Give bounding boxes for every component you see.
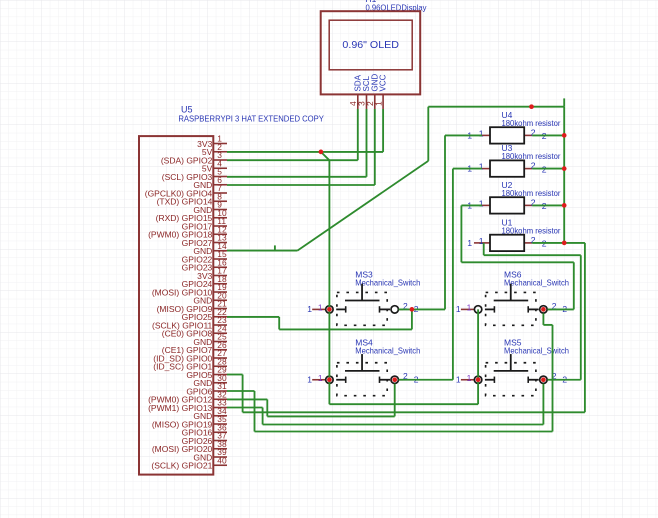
switch MS6 actuator bar (494, 300, 529, 302)
switch MS4 pin 1 terminal circle (326, 376, 333, 383)
U5 pin 33 stub (213, 407, 227, 409)
svg-text:1: 1 (467, 238, 472, 248)
wire pin29 horizontal (227, 374, 243, 376)
wire U1 pin2 riser down (584, 243, 586, 412)
U5 pin 21 stub (213, 308, 227, 310)
svg-text:1: 1 (373, 101, 383, 106)
svg-text:Mechanical_Switch: Mechanical_Switch (504, 346, 569, 356)
wire pin14 diagonal (297, 161, 428, 251)
IC U5 body (139, 136, 213, 475)
wire U2 pin1 horizontal (461, 204, 482, 206)
svg-text:(SCLK) GPIO21: (SCLK) GPIO21 (151, 461, 212, 471)
wire MS4 pin2 drop (394, 384, 396, 417)
switch MS3 pin 2 stub (399, 308, 404, 310)
wire diagonal riser (427, 107, 429, 161)
junction MS3 pin2 net (410, 307, 415, 312)
wire to MS6 pin2 (548, 308, 574, 310)
junction top rail wire (529, 104, 534, 109)
U5 pin 14 stub (213, 250, 227, 252)
U5 pin 32 stub (213, 398, 227, 400)
wire MS6 pin1 to MS5 pin1 and down (477, 309, 479, 404)
switch MS4 actuator bar (345, 370, 380, 372)
junction 5V wire (319, 150, 324, 155)
wire pin3 SDA horizontal (227, 159, 358, 161)
wire MS3 junction horizontal to chip (279, 328, 412, 330)
wire U2 pin1 riser down (460, 205, 462, 262)
wire U2 pin2 to rail (532, 204, 564, 206)
wire U4 pin1 horizontal (445, 134, 482, 136)
switch MS5 actuator bar (494, 370, 529, 372)
U5 pin 15 stub (213, 258, 227, 260)
wire resistor common rail stub above (563, 98, 565, 106)
switch MS5 pin 2 terminal circle (540, 376, 547, 383)
switch MS3 left contact arm (336, 308, 346, 310)
wire pin2 5V to OLED VCC (227, 151, 383, 153)
wire pin31 riser (254, 391, 256, 432)
U5 pin 29 stub (213, 374, 227, 376)
resistor U1 pin 1 stub (474, 242, 490, 244)
switch MS4 dashed body (337, 363, 387, 396)
wire MS6 pin2 drop (542, 313, 544, 325)
switch MS3 right arm tick (379, 306, 381, 312)
U5 pin 40 stub (213, 464, 227, 466)
switch MS5 dashed body (486, 363, 536, 396)
U5 pin 35 stub (213, 423, 227, 425)
svg-text:40: 40 (217, 455, 227, 465)
wire pin22 riser (278, 317, 280, 330)
switch MS5 left arm tick (493, 377, 495, 383)
svg-text:SDA: SDA (353, 74, 362, 91)
U5 pin 23 stub (213, 324, 227, 326)
U5 pin 9 stub (213, 209, 227, 211)
switch MS6 pin 2 stub (547, 308, 552, 310)
wire pin32 riser (266, 399, 268, 416)
svg-text:1: 1 (467, 373, 472, 383)
switch MS4 pin 2 stub (399, 379, 404, 381)
resistor U4 pin 2 stub (524, 134, 532, 136)
resistor U2 pin 1 stub (482, 204, 490, 206)
OLED display H1 outer body (321, 11, 421, 94)
switch MS3 pin 2 terminal circle (391, 306, 398, 313)
U5 pin 37 stub (213, 440, 227, 442)
svg-text:Mechanical_Switch: Mechanical_Switch (355, 346, 420, 356)
svg-text:1: 1 (307, 304, 312, 314)
resistor U1 pin 2 stub (524, 242, 532, 244)
U5 pin 7 stub (213, 192, 227, 194)
switch MS5 right contact arm (528, 379, 539, 381)
wire MS6 pin2 riser down (552, 325, 554, 432)
junction MS5 pin2 (541, 377, 546, 382)
U5 pin 8 stub (213, 200, 227, 202)
U5 pin 19 stub (213, 291, 227, 293)
wire OLED VCC riser (382, 109, 384, 152)
switch MS6 pin 2 terminal circle (540, 306, 547, 313)
junction MS6 pin2 (541, 307, 546, 312)
junction U3 pin2 (562, 166, 567, 171)
svg-text:1: 1 (456, 304, 461, 314)
wire U1 pin1 horizontal (484, 254, 581, 256)
wire U3 pin2 to rail (532, 168, 564, 170)
switch MS6 left contact arm (485, 308, 495, 310)
wire pin33 riser (262, 408, 264, 425)
junction MS5 pin1 (476, 377, 481, 382)
wire U4 pin1 riser down (444, 135, 446, 309)
switch MS6 pin 1 terminal circle (474, 306, 481, 313)
OLED pin 3 (SCL) stub (366, 94, 368, 109)
resistor U3 pin 2 stub (524, 168, 532, 170)
U5 pin 13 stub (213, 242, 227, 244)
wire to MS5 pin2 (548, 379, 581, 381)
wire pin22 horizontal (227, 316, 279, 318)
resistor U1 body (490, 235, 524, 251)
U5 pin 4 stub (213, 167, 227, 169)
resistor U3 pin 1 stub (482, 168, 490, 170)
svg-text:1: 1 (307, 374, 312, 384)
svg-text:Mechanical_Switch: Mechanical_Switch (504, 278, 569, 288)
OLED pin 1 (VCC) stub (382, 94, 384, 109)
U5 pin 38 stub (213, 448, 227, 450)
U5 pin 17 stub (213, 275, 227, 277)
U5 pin 39 stub (213, 456, 227, 458)
svg-text:1: 1 (479, 162, 484, 172)
wire 5V vertical rail to MS3/MS4 pin1 (328, 160, 330, 404)
wire GPIO6 long horizontal (255, 431, 553, 433)
switch MS6 pin 1 stub (461, 308, 474, 310)
U5 pin 28 stub (213, 365, 227, 367)
svg-text:1: 1 (479, 198, 484, 208)
wire 5V rail bottom to MS5 pin1 horizontal (329, 403, 478, 405)
switch MS5 left contact arm (485, 379, 495, 381)
resistor U4 body (490, 127, 524, 143)
U5 pin 20 stub (213, 299, 227, 301)
switch MS4 pin 2 terminal circle (391, 376, 398, 383)
U5 pin 2 stub (213, 151, 227, 153)
wire tick on pin14 wire (274, 245, 276, 250)
U5 pin 16 stub (213, 266, 227, 268)
wire U2-MS6 horizontal (461, 261, 573, 263)
U5 pin 36 stub (213, 431, 227, 433)
junction MS4 pin1 (327, 377, 332, 382)
U5 pin 24 stub (213, 332, 227, 334)
wire pin29 riser (242, 375, 244, 413)
U5 pin 27 stub (213, 357, 227, 359)
svg-text:1: 1 (479, 128, 484, 138)
U5 pin 3 stub (213, 159, 227, 161)
U5 pin 10 stub (213, 217, 227, 219)
switch MS5 actuator stem (510, 354, 512, 371)
switch MS6 left arm tick (493, 306, 495, 312)
wire GPIO5 long horizontal (243, 411, 585, 413)
switch MS6 actuator stem (510, 284, 512, 301)
switch MS4 left arm tick (345, 377, 347, 383)
svg-text:1: 1 (456, 374, 461, 384)
wire U1 pin2 to rail (532, 242, 564, 244)
svg-text:1: 1 (467, 302, 472, 312)
junction U4 pin2 (562, 133, 567, 138)
switch MS3 pin 1 stub (312, 308, 325, 310)
OLED pin 2 (GND) stub (374, 94, 376, 109)
U5 pin 22 stub (213, 316, 227, 318)
wire MS6 pin2 riser (573, 262, 575, 309)
wire U3 pin1 riser down (452, 169, 454, 380)
OLED display H1 inner screen rect (329, 20, 412, 70)
resistor U3 body (490, 160, 524, 176)
switch MS4 right arm tick (379, 377, 381, 383)
wire OLED GND riser (374, 109, 376, 185)
wire resistor common vertical rail (563, 107, 565, 243)
wire pin33 horizontal (227, 407, 263, 409)
switch MS5 pin 1 stub (461, 379, 474, 381)
U5 pin 25 stub (213, 341, 227, 343)
switch MS6 right contact arm (528, 308, 539, 310)
wire U1 pin2 extension (564, 242, 585, 244)
switch MS3 actuator stem (361, 284, 363, 301)
resistor U4 pin 1 stub (482, 134, 490, 136)
switch MS4 actuator stem (361, 354, 363, 371)
U5 pin 5 stub (213, 176, 227, 178)
wire OLED SCL riser (366, 109, 368, 177)
resistor U2 pin 2 stub (524, 204, 532, 206)
wire MS5 pin2 right riser (580, 255, 582, 380)
switch MS3 dashed body (337, 292, 387, 325)
svg-text:1: 1 (318, 373, 323, 383)
wire U3 pin1 horizontal (453, 168, 482, 170)
wire OLED SDA riser (357, 109, 359, 160)
svg-text:VCC: VCC (379, 74, 388, 91)
U5 pin 34 stub (213, 415, 227, 417)
U5 pin 30 stub (213, 382, 227, 384)
wire U1 pin1 riser down (483, 243, 485, 255)
svg-text:1: 1 (318, 302, 323, 312)
resistor U2 body (490, 197, 524, 213)
junction U1 pin2 (562, 241, 567, 246)
switch MS6 dashed body (486, 292, 536, 325)
switch MS5 pin 1 terminal circle (474, 376, 481, 383)
switch MS4 right contact arm (380, 379, 391, 381)
svg-text:RASPBERRYPI 3 HAT EXTENDED COP: RASPBERRYPI 3 HAT EXTENDED COPY (178, 113, 324, 123)
wire GPIO13 long horizontal (263, 424, 544, 426)
wire pin31 horizontal (227, 390, 255, 392)
wire pin14 GND horizontal (227, 250, 297, 252)
svg-text:0.96" OLED: 0.96" OLED (342, 39, 399, 51)
U5 pin 12 stub (213, 233, 227, 235)
svg-text:Mechanical_Switch: Mechanical_Switch (355, 278, 420, 288)
wire to MS3 pin2 (399, 308, 445, 310)
switch MS5 right arm tick (527, 377, 529, 383)
wire U4 pin2 to rail (532, 134, 564, 136)
U5 pin 6 stub (213, 184, 227, 186)
switch MS4 left contact arm (336, 379, 346, 381)
wire 5V diagonal jog to rail (321, 152, 330, 160)
wire MS5 pin2 drop (542, 384, 544, 425)
junction U2 pin2 (562, 203, 567, 208)
wire top horizontal to resistor common rail (428, 106, 564, 108)
switch MS3 pin 1 terminal circle (326, 306, 333, 313)
junction MS3 pin1 (327, 307, 332, 312)
wire MS6 pin2 jog (543, 324, 552, 326)
U5 pin 31 stub (213, 390, 227, 392)
switch MS3 right contact arm (380, 308, 391, 310)
U5 pin 1 stub (213, 143, 227, 145)
OLED pin 4 (SDA) stub (357, 94, 359, 109)
wire pin5 SCL horizontal (227, 176, 367, 178)
switch MS4 pin 1 stub (312, 379, 325, 381)
switch MS6 right arm tick (527, 306, 529, 312)
switch MS3 left arm tick (345, 306, 347, 312)
wire MS3 pin2 junction riser (411, 309, 413, 329)
wire to MS4 pin2 (399, 379, 453, 381)
wire GPIO12 long horizontal (267, 415, 394, 417)
switch MS5 pin 2 stub (547, 379, 552, 381)
U5 pin 18 stub (213, 283, 227, 285)
switch MS3 actuator bar (345, 300, 380, 302)
wire pin6 GND horizontal (227, 184, 375, 186)
wire pin32 horizontal (227, 398, 267, 400)
U5 pin 26 stub (213, 349, 227, 351)
U5 pin 11 stub (213, 225, 227, 227)
junction MS4 pin2 (392, 377, 397, 382)
